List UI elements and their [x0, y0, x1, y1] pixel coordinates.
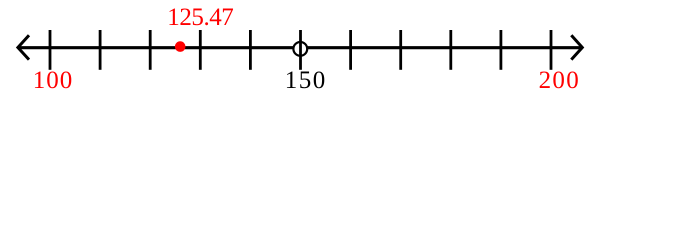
plotted point 125.47 (red dot): [175, 41, 186, 52]
tick 100: [49, 30, 52, 70]
tick 110: [99, 30, 102, 70]
tick 140: [249, 30, 252, 70]
left arrowhead: [18, 35, 29, 59]
tick 200: [550, 30, 553, 70]
number line figure: [0, 0, 675, 100]
tick 190: [499, 30, 502, 70]
label 150: [285, 68, 327, 93]
tick 160: [349, 30, 352, 70]
tick 130: [199, 30, 202, 70]
wire: main horizontal number line: [19, 46, 582, 49]
label 125.47: [167, 5, 233, 30]
open circle at 150: [293, 42, 307, 56]
tick 180: [449, 30, 452, 70]
label 100: [33, 68, 74, 93]
right arrowhead: [571, 35, 582, 59]
tick 150: [299, 30, 302, 70]
tick 170: [399, 30, 402, 70]
tick 120: [149, 30, 152, 70]
label 200: [539, 68, 580, 93]
